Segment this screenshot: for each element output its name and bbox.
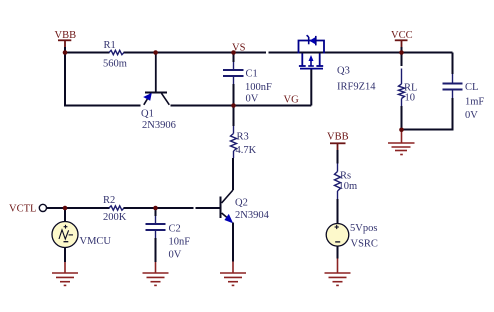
- power VCC bar: [395, 40, 408, 47]
- pin RL upper: [401, 69, 403, 85]
- wire top rail left: [65, 52, 110, 54]
- mosfet Q3 body diode cathode bar: [307, 35, 309, 44]
- svg-text:VMCU: VMCU: [80, 236, 112, 247]
- transistor Q1 emitter arrow: [143, 93, 152, 101]
- wire RL bottom lead: [401, 106, 403, 130]
- ground C2: [143, 262, 169, 285]
- wire VMCU to ground: [64, 248, 66, 263]
- wire C1 bottom lead: [233, 84, 235, 106]
- wire VSRC to ground: [337, 246, 339, 258]
- svg-text:R1: R1: [104, 40, 116, 51]
- junction dot VS: [231, 50, 236, 55]
- resistor R2: [109, 206, 124, 210]
- svg-text:VBB: VBB: [55, 30, 77, 41]
- svg-text:560m: 560m: [103, 58, 127, 69]
- transistor Q2 emitter: [222, 213, 230, 220]
- svg-text:0V: 0V: [465, 110, 478, 121]
- svg-text:IRF9Z14: IRF9Z14: [337, 82, 376, 93]
- wire C1 top lead: [233, 54, 235, 63]
- source VMCU plus: [64, 225, 68, 229]
- svg-text:VCTL: VCTL: [9, 204, 36, 215]
- mosfet Q3 body arrow: [309, 55, 314, 61]
- pin CL upper: [452, 74, 454, 83]
- junction dot C2 node: [153, 206, 158, 211]
- svg-text:VCC: VCC: [391, 30, 413, 41]
- transistor Q2 base bar: [220, 197, 222, 219]
- capacitor C1: [223, 70, 244, 76]
- junction dot VCTL: [63, 206, 68, 211]
- svg-text:2N3904: 2N3904: [235, 210, 270, 221]
- wire Q2 emitter to ground: [232, 223, 234, 262]
- pin RL lower: [401, 99, 403, 107]
- junction dot VCC: [399, 50, 404, 55]
- resistor R3: [231, 134, 237, 152]
- junction dot VBB: [63, 50, 68, 55]
- svg-text:R2: R2: [103, 195, 115, 206]
- svg-text:Q3: Q3: [337, 66, 350, 77]
- wire RL top lead: [401, 54, 403, 67]
- ground VSRC: [325, 259, 351, 286]
- svg-text:200K: 200K: [103, 212, 127, 223]
- svg-text:Rs: Rs: [340, 171, 351, 182]
- mosfet Q3 gate plate: [300, 68, 323, 70]
- ground VCC RL CL: [388, 130, 415, 155]
- ground Q2: [220, 262, 246, 286]
- wire Rs top lead: [337, 150, 339, 164]
- wire VCC stem: [401, 47, 403, 53]
- transistor Q2 emitter arrow: [224, 214, 233, 224]
- wire VG riser to gate: [310, 69, 312, 106]
- pin Rs lower: [337, 191, 339, 199]
- svg-text:VSRC: VSRC: [351, 239, 378, 250]
- wire CL top lead: [452, 53, 454, 75]
- wire R3 to Q2 collector: [232, 158, 234, 190]
- port VCTL circle: [39, 204, 46, 211]
- source VSRC plus: [335, 225, 339, 229]
- svg-text:10nF: 10nF: [169, 237, 191, 248]
- wire top rail right: [269, 52, 453, 54]
- mosfet Q3 source drop: [299, 54, 306, 67]
- transistor Q2 collector: [222, 190, 233, 203]
- svg-text:CL: CL: [465, 82, 478, 93]
- source VMCU waveform: [59, 230, 73, 239]
- ground VMCU: [52, 262, 78, 285]
- svg-text:1mF: 1mF: [465, 97, 484, 108]
- wire VBB stem: [64, 47, 66, 53]
- wire C2 to ground: [155, 238, 157, 262]
- transistor Q1 base lead: [155, 54, 157, 93]
- source VSRC minus: [335, 241, 340, 243]
- transistor Q1 emitter: [144, 93, 151, 105]
- svg-text:4.7K: 4.7K: [236, 145, 257, 156]
- pin C1 lower: [233, 77, 235, 84]
- wire R3 top lead: [233, 106, 235, 127]
- source VMCU circle: [52, 222, 78, 248]
- wire VCTL to node: [47, 207, 110, 209]
- svg-text:2N3906: 2N3906: [142, 120, 176, 131]
- pin C1 upper: [233, 62, 235, 69]
- resistor Rs: [335, 172, 341, 192]
- wire top rail mid: [124, 52, 267, 54]
- pin C2 upper: [155, 216, 157, 223]
- power VBB left bar: [58, 40, 71, 47]
- mosfet Q3 body loop: [299, 41, 325, 54]
- mosfet Q3 drain drop: [316, 54, 323, 67]
- wire Q1 collector to VG node: [171, 105, 312, 107]
- pin R3 upper: [233, 126, 235, 134]
- power VBB right bar: [330, 143, 346, 150]
- resistor RL: [399, 84, 405, 99]
- svg-text:Q2: Q2: [235, 198, 248, 209]
- svg-text:R3: R3: [237, 132, 249, 143]
- svg-text:VBB: VBB: [327, 132, 349, 143]
- svg-text:C1: C1: [246, 69, 258, 80]
- pin CL lower: [452, 91, 454, 99]
- svg-text:0V: 0V: [169, 250, 182, 261]
- resistor R1: [109, 50, 124, 54]
- svg-text:Q1: Q1: [141, 109, 154, 120]
- svg-text:0V: 0V: [246, 94, 259, 105]
- mosfet Q3 body diode triangle: [309, 37, 316, 45]
- transistor Q1 base bar: [145, 92, 167, 94]
- wire left drop from VBB: [65, 53, 141, 106]
- svg-text:10: 10: [405, 93, 416, 104]
- source VMCU minus: [64, 241, 69, 243]
- wire Rs to source: [337, 199, 339, 224]
- svg-text:100nF: 100nF: [245, 82, 272, 93]
- transistor Q1 collector: [162, 93, 170, 105]
- mosfet Q3 body diode anode bar: [315, 36, 317, 46]
- wire VMCU drop: [64, 208, 66, 222]
- svg-text:10m: 10m: [339, 181, 358, 192]
- svg-text:C2: C2: [169, 224, 181, 235]
- source VSRC circle: [326, 224, 349, 247]
- wire R2 to C2 node: [124, 207, 194, 209]
- pin R3 lower: [233, 151, 235, 158]
- junction dot RL CL return: [399, 128, 404, 133]
- junction dot VG: [231, 103, 236, 108]
- capacitor C2: [146, 224, 166, 230]
- junction dot Q1 base: [153, 50, 158, 55]
- capacitor CL: [443, 84, 463, 90]
- pin C2 lower: [155, 231, 157, 238]
- svg-text:VG: VG: [284, 95, 300, 106]
- mosfet Q3 body arrow stem: [308, 61, 314, 66]
- wire C2 node to Q2 base: [196, 207, 221, 209]
- wire C2 top lead: [155, 208, 157, 216]
- svg-text:5Vpos: 5Vpos: [350, 223, 377, 234]
- wire CL bottom return: [402, 98, 453, 130]
- pin Rs upper: [337, 164, 339, 172]
